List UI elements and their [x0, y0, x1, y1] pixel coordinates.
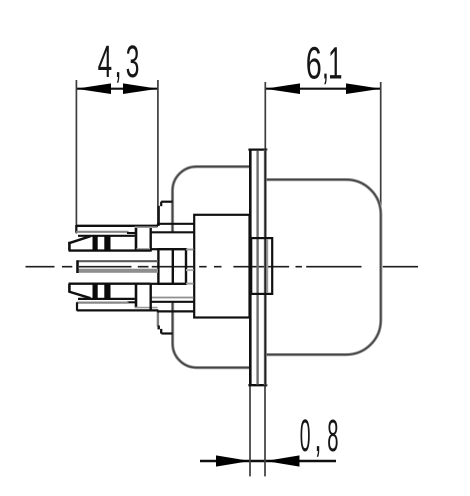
svg-text:3: 3 — [126, 36, 140, 87]
svg-text:6: 6 — [306, 39, 322, 89]
front shell outline — [266, 180, 381, 355]
pin 3 top edge — [69, 283, 151, 285]
dimension 4,3 right extension line — [157, 80, 159, 224]
rear shell lower outline — [173, 302, 250, 368]
collar edge joins — [151, 248, 158, 250]
bottom neck — [157, 310, 159, 327]
rear shell upper outline — [173, 167, 250, 233]
dimension 0,8 left extension line — [249, 386, 251, 476]
centerline — [26, 266, 419, 268]
bracket top plate — [76, 225, 158, 227]
bushing inner gray line — [266, 239, 268, 293]
dimension 6,1 text — [306, 38, 343, 90]
collar divider — [172, 249, 174, 284]
dimension 6,1 right arrowhead — [346, 83, 381, 94]
holder bottom lines — [149, 284, 151, 310]
pin 3 tip end — [68, 284, 71, 293]
dimension 0,8 line — [200, 460, 336, 462]
pin 3 retention bar A — [93, 284, 98, 300]
dimension 6,1 right extension line — [380, 82, 382, 214]
pin 3 retention bar B — [104, 284, 110, 300]
center contact tab end — [76, 260, 79, 273]
dimension 6,1 line — [265, 88, 381, 90]
pin 3 window left edge — [135, 284, 138, 308]
insulator block — [194, 215, 249, 318]
flange left face — [249, 150, 252, 386]
pin 1 retention bar A — [93, 235, 98, 251]
pin 3 hidden edge — [151, 297, 194, 299]
svg-text:,: , — [115, 36, 122, 87]
dimension 4,3 left arrowhead — [76, 83, 111, 94]
flange bottom cap — [248, 384, 267, 386]
center contact tab lower shading — [79, 269, 158, 273]
pin 1 top edge — [78, 235, 135, 237]
svg-text:0: 0 — [300, 412, 311, 461]
pin 1 retention bar B — [104, 235, 110, 251]
pin 1 window shading — [137, 248, 151, 250]
center bushing — [251, 238, 272, 294]
holder top lines — [157, 223, 194, 225]
pin 1 tip end — [68, 242, 71, 251]
dimension 6,1 left arrowhead — [265, 83, 300, 94]
dimension 0,8 right extension line — [264, 386, 266, 476]
svg-text:4: 4 — [98, 36, 113, 86]
svg-text:1: 1 — [328, 38, 343, 88]
top neck — [161, 201, 172, 203]
dimension 4,3 text — [98, 36, 140, 87]
pin 3 bottom edge — [78, 298, 135, 300]
svg-text:8: 8 — [327, 411, 338, 461]
pin 3 window shading — [135, 307, 158, 309]
svg-text:,: , — [315, 410, 322, 461]
flange right face — [264, 150, 267, 386]
dimension 4,3 right arrowhead — [123, 83, 158, 94]
flange mid line — [256, 151, 258, 385]
dimension 0,8 text — [300, 410, 339, 461]
pin 3 tip chamfer — [69, 292, 91, 299]
dimension 6,1 left extension line — [264, 82, 266, 149]
center contact tab top edge — [77, 260, 159, 262]
holder face top — [149, 227, 151, 252]
pin 1 tip chamfer — [69, 236, 91, 243]
flange top cap — [248, 148, 267, 150]
dimension 0,8 left arrowhead — [216, 455, 250, 466]
pin 1 window left edge — [135, 228, 138, 251]
dimension 4,3 line — [76, 88, 158, 90]
collar around center contact — [158, 249, 186, 284]
pin 1 bottom edge — [69, 249, 151, 251]
dimension 0,8 right arrowhead — [266, 455, 300, 466]
dimension 4,3 left extension line — [75, 80, 77, 234]
